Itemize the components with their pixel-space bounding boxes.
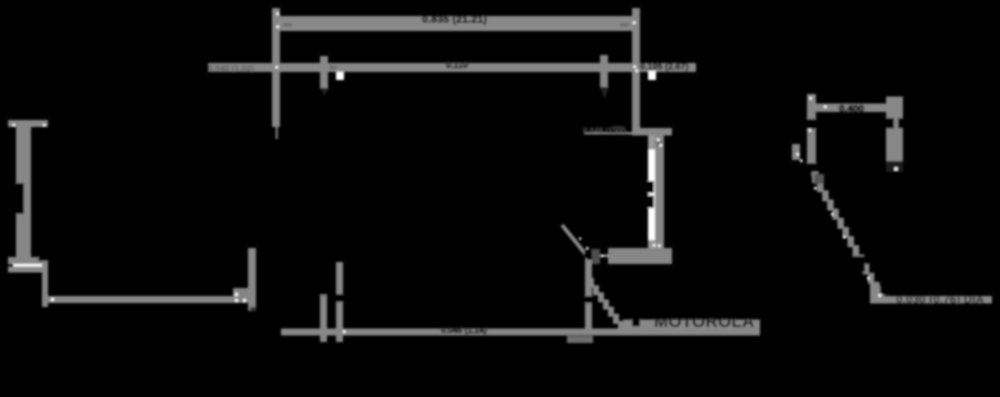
black arrow disk (584, 248, 596, 260)
extension line left lower sliver (276, 127, 279, 139)
tick mark B on D2 (600, 55, 608, 87)
white dots lower right beam 2 (658, 245, 661, 248)
black arrowhead over flange corner (38, 244, 48, 261)
right bar bottom white dot (895, 168, 898, 171)
gray text below bottom line (567, 336, 593, 343)
white junction dot on D2 left crossing (276, 66, 279, 69)
protrusion white dot 2 (800, 160, 803, 163)
svg-text:0.400: 0.400 (839, 104, 864, 115)
right view right bar (886, 97, 903, 162)
white square marker B (648, 71, 656, 80)
bracket right arrow patch (233, 288, 249, 303)
white junction dot on D2 right crossing (634, 66, 637, 69)
right view left bar white dot top (810, 97, 813, 100)
dimension D1 arrow trace right (620, 23, 629, 27)
right beam white strip (648, 136, 655, 248)
white fleck on left extension line (277, 13, 280, 16)
white junction dot on D2 right crossing lower (636, 70, 639, 73)
diagonal foot black bite (880, 287, 889, 295)
lead bottom thick bar (608, 248, 672, 264)
tick D black bite (336, 294, 344, 302)
small gray arrow right of tick A (330, 65, 339, 71)
diagonal foot white dot (879, 294, 882, 297)
black arrowhead biting bottom flange (39, 246, 51, 262)
right beam gray strip (655, 136, 664, 249)
white dot on gray strip upper (657, 139, 660, 142)
svg-text:0.040 (1.02): 0.040 (1.02) (208, 64, 254, 74)
svg-text:0.105 (2.67): 0.105 (2.67) (640, 62, 689, 72)
black blob on white strip 1 (644, 181, 654, 193)
leader line to right beam (584, 132, 633, 135)
white fleck on left extension line lower (277, 26, 280, 29)
white square marker A (336, 72, 344, 80)
svg-text:MOTOROLA: MOTOROLA (654, 312, 754, 331)
white strip mottled bottom (648, 240, 655, 248)
protrusion white dot (797, 153, 800, 156)
leader diagonal upper (562, 225, 592, 262)
right view left bar (807, 94, 816, 166)
white fleck on right extension line (633, 22, 636, 25)
bottom dimension line (281, 329, 625, 336)
leader diagonal lower (stepped) (588, 278, 624, 331)
white dot on lead line 1 (594, 255, 596, 257)
right bar black bite left (886, 118, 894, 129)
tick B black arrowhead (600, 87, 609, 99)
svg-text:0.030 (0.76) DIA: 0.030 (0.76) DIA (896, 295, 984, 307)
white dot on diagonal 1 (814, 187, 817, 190)
diagonal gray start block (814, 174, 824, 184)
white dot on gray strip upper 2 (660, 144, 663, 147)
leader dark text block (612, 126, 624, 131)
black arrow bite below left bar (804, 163, 819, 176)
tick D (lead pitch right) (336, 262, 343, 342)
white dot on lead line 3 (608, 255, 610, 257)
tick C black bite (319, 287, 328, 295)
white fleck on top flange right (43, 124, 46, 127)
bracket dimension line (bottom left) (42, 296, 247, 303)
black blob on white strip 2 (644, 196, 654, 209)
side view top flange (8, 120, 48, 127)
white dot on upper leader 2 (586, 247, 588, 249)
right lead thin line (590, 255, 610, 258)
logo gray bar (623, 320, 760, 336)
right bar black bite right (898, 118, 903, 129)
white dot on arrow patch 1 (235, 293, 238, 296)
white dot on arrow patch 3 (243, 299, 246, 302)
faint marks on gray strip upper (656, 140, 662, 146)
diagonal black notch (852, 256, 865, 272)
svg-text:0.045 (1.14): 0.045 (1.14) (441, 325, 487, 335)
side view bottom flange lower (8, 267, 48, 273)
dimension line D2 band (pin spacing dimension) (208, 63, 696, 72)
lead bend diagonal (stepped) (812, 172, 885, 302)
svg-text:0.835 (21.21): 0.835 (21.21) (422, 14, 487, 26)
tick E black bite (583, 296, 593, 303)
white dot on arrow patch 2 (235, 299, 238, 302)
dimension D1 arrow trace left (283, 23, 292, 27)
diagonal foot gray block (870, 283, 880, 304)
right bar bottom mottle (886, 161, 903, 172)
white fleck on top flange left (13, 124, 16, 127)
extension line right (front view width dim) (632, 8, 640, 129)
white strip mottled top (648, 136, 655, 150)
tick E (right lead extension) (585, 258, 592, 329)
extension line left (front view width dim) (272, 8, 280, 127)
svg-text:0.110: 0.110 (446, 60, 468, 70)
white dot on diagonal 2 (831, 213, 834, 216)
white dot on bracket line left (51, 298, 54, 301)
tick C (lead pitch left) (320, 293, 327, 342)
right view top dimension line (810, 104, 898, 113)
bracket dimension vertical (left) (42, 252, 48, 307)
logo first glyph black (632, 312, 640, 327)
seating plane white stripe (13, 264, 48, 267)
right beam top bar (632, 128, 672, 136)
side view bottom flange upper (8, 257, 48, 265)
right view protrusion (792, 144, 800, 160)
right view left bar black bite (805, 119, 818, 129)
white dot on diagonal 3 (843, 236, 846, 239)
dimension line D1 band (top width dimension) (278, 16, 634, 31)
white dot on upper leader 1 (579, 238, 581, 240)
right view bottom leader line (880, 296, 992, 304)
white dot left of tick D (343, 331, 346, 334)
lead bar dark bottom smudge (250, 307, 256, 311)
tick mark A on D2 (320, 56, 328, 88)
white dot on diagonal 4 (867, 277, 870, 280)
side view body black text blob (15, 183, 24, 214)
lead bar below flange (248, 248, 256, 311)
tick A black arrowhead (320, 88, 329, 96)
white dot on top dim line (824, 106, 827, 109)
right view left bar white dot mid (809, 129, 812, 132)
white dots lower right beam (653, 244, 656, 247)
white dot on lead line 2 (602, 255, 604, 257)
side view body bar (16, 127, 31, 257)
dark gray arrow patch (592, 249, 600, 264)
